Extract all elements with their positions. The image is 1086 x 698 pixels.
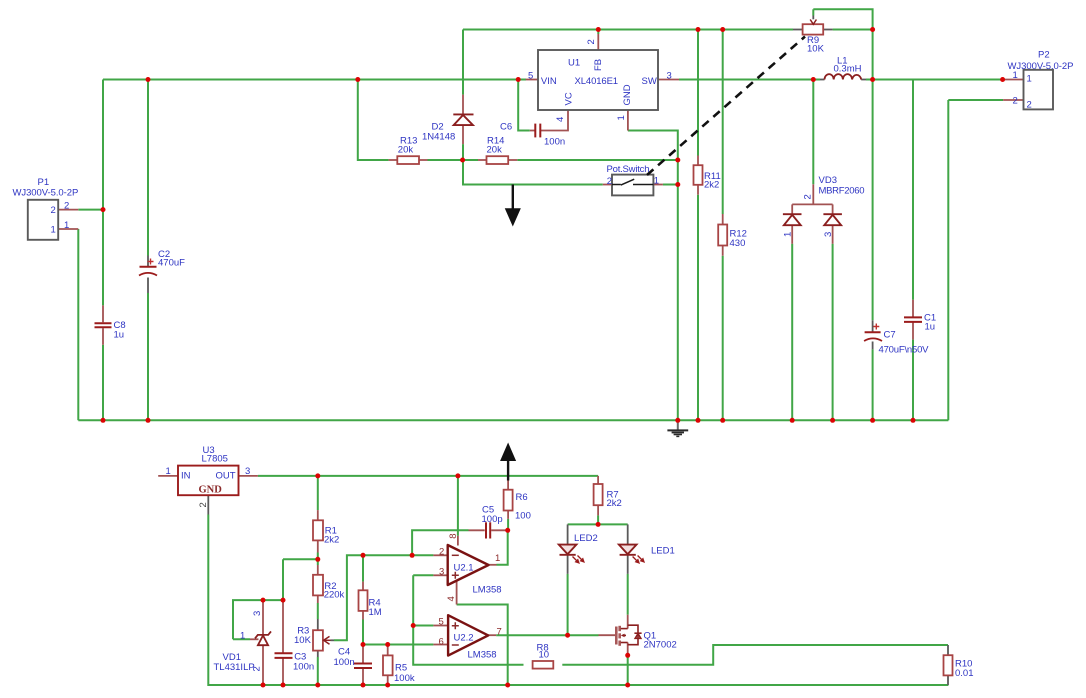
svg-text:100n: 100n [334, 657, 355, 668]
svg-text:430: 430 [730, 238, 746, 249]
svg-text:1: 1 [616, 115, 627, 120]
svg-text:U2.1: U2.1 [454, 563, 474, 574]
svg-text:2k2: 2k2 [704, 180, 719, 191]
svg-text:Pot.Switch: Pot.Switch [607, 164, 650, 175]
svg-text:LED1: LED1 [651, 546, 675, 557]
svg-text:2: 2 [439, 546, 444, 557]
svg-text:3: 3 [823, 232, 834, 237]
svg-text:100: 100 [515, 511, 531, 522]
svg-text:C4: C4 [338, 647, 350, 658]
svg-text:2: 2 [252, 666, 263, 671]
svg-text:2: 2 [198, 502, 209, 507]
svg-text:IN: IN [181, 471, 191, 482]
svg-text:OUT: OUT [216, 471, 236, 482]
svg-text:20k: 20k [487, 144, 503, 155]
svg-text:2: 2 [1027, 100, 1032, 111]
svg-text:C7: C7 [884, 330, 896, 341]
svg-text:6: 6 [439, 636, 444, 647]
svg-text:U2.2: U2.2 [454, 633, 474, 644]
svg-text:1N4148: 1N4148 [422, 132, 455, 143]
svg-text:U1: U1 [568, 58, 580, 69]
svg-text:10: 10 [539, 650, 550, 661]
svg-text:470uF\n50V: 470uF\n50V [879, 345, 930, 356]
svg-text:R6: R6 [516, 492, 528, 503]
svg-text:1: 1 [1027, 74, 1032, 85]
svg-text:FB: FB [593, 59, 604, 71]
svg-text:220k: 220k [324, 590, 345, 601]
svg-text:4: 4 [555, 117, 566, 122]
svg-text:1: 1 [64, 220, 69, 231]
svg-text:7: 7 [497, 626, 502, 637]
svg-text:10K: 10K [294, 635, 312, 646]
svg-text:L7805: L7805 [202, 454, 228, 465]
svg-text:5: 5 [528, 71, 533, 82]
svg-text:2: 2 [64, 200, 69, 211]
svg-text:10K: 10K [807, 44, 825, 55]
svg-text:3: 3 [245, 466, 250, 477]
svg-text:2: 2 [586, 39, 597, 44]
svg-text:MBRF2060: MBRF2060 [819, 186, 865, 197]
svg-text:2k2: 2k2 [324, 535, 339, 546]
svg-text:XL4016E1: XL4016E1 [575, 76, 619, 87]
svg-text:1: 1 [240, 631, 245, 642]
svg-text:0.01: 0.01 [955, 668, 974, 679]
svg-text:TL431ILP: TL431ILP [214, 662, 255, 673]
svg-text:0.3mH: 0.3mH [834, 64, 862, 75]
svg-text:2: 2 [803, 194, 814, 199]
svg-text:1: 1 [51, 225, 56, 236]
svg-text:2k2: 2k2 [607, 498, 622, 509]
svg-text:1: 1 [654, 176, 659, 187]
svg-text:VC: VC [564, 92, 575, 105]
svg-text:3: 3 [439, 566, 444, 577]
svg-text:20k: 20k [398, 144, 414, 155]
svg-text:1u: 1u [114, 330, 125, 341]
svg-text:3: 3 [667, 71, 672, 82]
svg-text:VD3: VD3 [819, 175, 837, 186]
svg-text:2: 2 [1013, 95, 1018, 106]
svg-text:8: 8 [448, 533, 459, 538]
svg-text:P2: P2 [1038, 50, 1050, 61]
svg-text:VIN: VIN [541, 76, 557, 87]
svg-text:1u: 1u [925, 322, 936, 333]
svg-text:1: 1 [783, 232, 794, 237]
svg-text:2: 2 [607, 176, 612, 187]
svg-text:1: 1 [495, 553, 500, 564]
svg-text:LM358: LM358 [468, 650, 497, 661]
svg-text:GND: GND [199, 485, 223, 496]
svg-text:1: 1 [1013, 70, 1018, 81]
svg-text:1M: 1M [369, 607, 382, 618]
svg-text:470uF: 470uF [158, 258, 185, 269]
svg-text:4: 4 [446, 596, 457, 601]
svg-text:5: 5 [439, 617, 444, 628]
svg-text:2: 2 [51, 205, 56, 216]
svg-text:R5: R5 [395, 663, 407, 674]
svg-text:C6: C6 [500, 122, 512, 133]
svg-text:100n: 100n [293, 662, 314, 673]
svg-text:1: 1 [166, 466, 171, 477]
svg-text:GND: GND [622, 84, 633, 105]
svg-text:100n: 100n [544, 137, 565, 148]
svg-text:WJ300V-5.0-2P: WJ300V-5.0-2P [13, 187, 79, 198]
svg-text:100k: 100k [394, 673, 415, 684]
svg-text:LM358: LM358 [473, 585, 502, 596]
svg-text:3: 3 [252, 611, 263, 616]
svg-text:100p: 100p [482, 514, 503, 525]
svg-text:LED2: LED2 [574, 533, 598, 544]
svg-text:2N7002: 2N7002 [644, 640, 677, 651]
svg-text:SW: SW [642, 76, 657, 87]
